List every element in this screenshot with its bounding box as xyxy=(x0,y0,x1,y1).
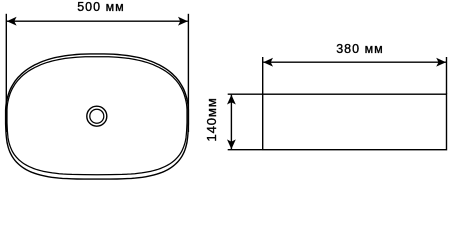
500mm dimension line xyxy=(7,20,188,22)
svg-text:380 мм: 380 мм xyxy=(336,42,384,56)
side view rectangle xyxy=(263,94,447,150)
drain inner circle xyxy=(90,109,104,123)
basin top view: inner rim xyxy=(7,57,187,175)
basin top view: outer rim xyxy=(6,54,189,179)
500mm right arrow xyxy=(178,17,188,26)
140mm top arrow xyxy=(227,95,236,105)
140mm dimension line xyxy=(230,95,232,150)
svg-text:140мм: 140мм xyxy=(204,97,219,141)
380mm right arrow xyxy=(436,58,446,67)
500mm dimension: right extension line xyxy=(187,14,189,132)
380mm dimension: right extension line xyxy=(446,57,448,94)
drain outer circle xyxy=(87,106,107,126)
140mm dimension: bottom extension line xyxy=(228,149,262,151)
380mm left arrow xyxy=(263,58,273,67)
380mm dimension line xyxy=(263,61,446,63)
500mm dimension: left extension line xyxy=(5,14,7,132)
500mm left arrow xyxy=(7,17,17,26)
380mm dimension: left extension line xyxy=(262,57,264,94)
140mm dimension: top extension line xyxy=(228,93,262,95)
140mm bottom arrow xyxy=(227,139,236,149)
svg-text:500 мм: 500 мм xyxy=(77,0,125,14)
